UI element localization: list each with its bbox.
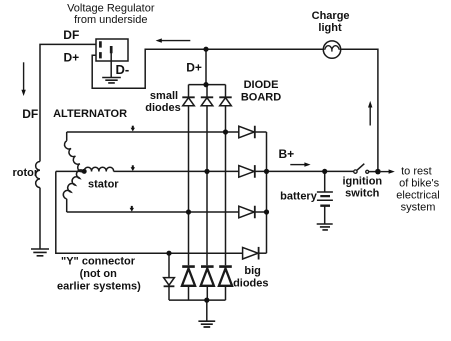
svg-text:electrical: electrical — [396, 190, 439, 202]
svg-text:BOARD: BOARD — [241, 92, 281, 104]
svg-text:D+: D+ — [186, 61, 202, 75]
svg-text:D+: D+ — [64, 51, 80, 65]
svg-text:diodes: diodes — [145, 102, 180, 114]
svg-text:DF: DF — [22, 107, 38, 121]
svg-text:D-: D- — [116, 62, 130, 77]
svg-text:switch: switch — [345, 188, 380, 200]
svg-text:to rest: to rest — [401, 166, 432, 178]
svg-text:big: big — [244, 265, 261, 277]
svg-text:(not on: (not on — [80, 268, 118, 280]
svg-text:DF: DF — [63, 28, 79, 42]
svg-text:Charge: Charge — [312, 10, 350, 22]
svg-text:battery: battery — [280, 191, 318, 203]
svg-text:B+: B+ — [279, 147, 295, 161]
svg-text:Voltage Regulator: Voltage Regulator — [67, 3, 155, 15]
svg-text:"Y" connector: "Y" connector — [61, 256, 136, 268]
svg-text:ALTERNATOR: ALTERNATOR — [53, 108, 127, 120]
svg-text:DIODE: DIODE — [244, 79, 279, 91]
svg-text:light: light — [318, 22, 342, 34]
svg-text:diodes: diodes — [233, 277, 268, 289]
svg-text:system: system — [401, 202, 436, 214]
svg-text:stator: stator — [88, 179, 119, 191]
svg-text:earlier systems): earlier systems) — [57, 280, 141, 292]
svg-text:of bike's: of bike's — [399, 178, 440, 190]
svg-text:ignition: ignition — [342, 175, 382, 187]
svg-text:from underside: from underside — [74, 14, 147, 26]
svg-text:small: small — [150, 90, 178, 102]
svg-text:rotor: rotor — [13, 167, 39, 179]
